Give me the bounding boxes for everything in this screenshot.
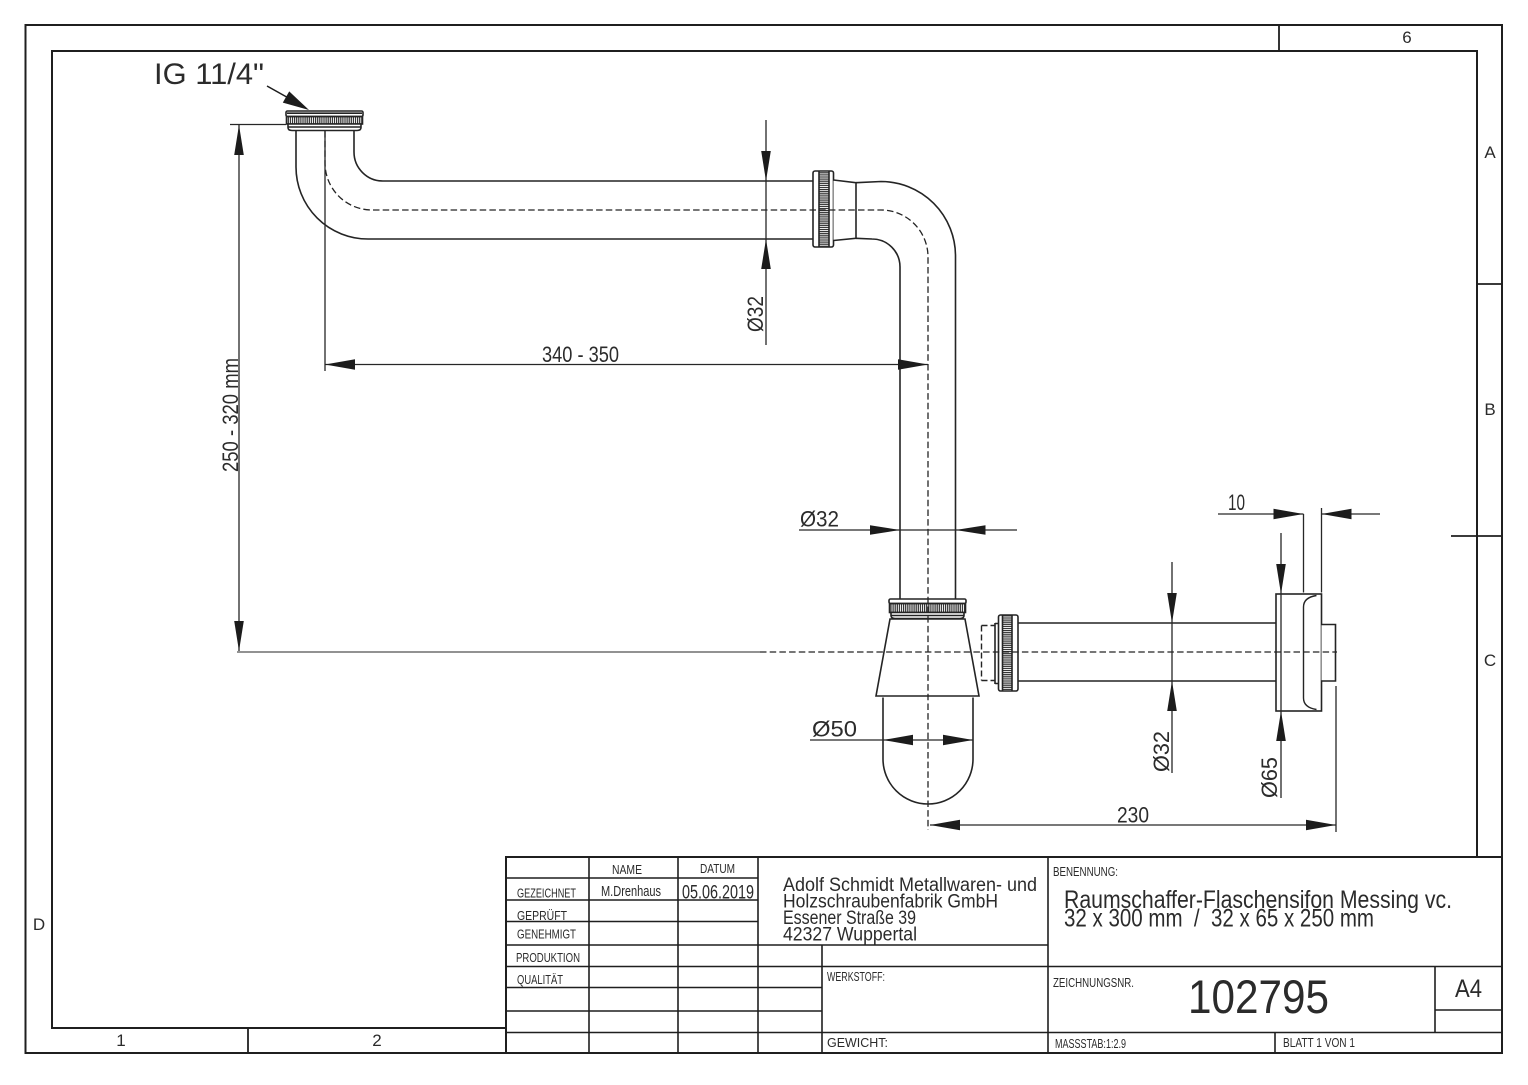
arrow 10 right [1274, 509, 1304, 519]
pipe centerline elbow1-pipe1-elbow2-vertical-trap (dashed) [325, 131, 928, 830]
svg-text:Ø32: Ø32 [743, 296, 768, 332]
leader line IG [267, 86, 292, 100]
svg-text:WERKSTOFF:: WERKSTOFF: [827, 970, 885, 984]
svg-text:42327 Wuppertal: 42327 Wuppertal [783, 925, 917, 946]
svg-text:A4: A4 [1455, 975, 1482, 1003]
arrow dia32 upper up [761, 239, 771, 269]
trap nut top cap [889, 599, 966, 604]
svg-text:QUALITÄT: QUALITÄT [517, 973, 563, 987]
svg-text:B: B [1484, 400, 1495, 419]
dimension texts [154, 58, 1282, 828]
outlet union nut [999, 615, 1019, 691]
svg-text:PRODUKTION: PRODUKTION [516, 951, 580, 965]
trap cone body [876, 619, 979, 696]
dim dia32 upper line [765, 120, 767, 345]
dim 250-320 line [238, 125, 240, 651]
centerlines [237, 131, 1337, 830]
dim 340-350 line [325, 364, 928, 366]
svg-text:DATUM: DATUM [700, 862, 735, 876]
dim dia50 line [810, 739, 973, 741]
dim 230 line [930, 824, 1336, 826]
svg-text:M.Drenhaus: M.Drenhaus [601, 884, 661, 900]
elbow 2 inner edge [856, 238, 900, 599]
title block vertical lines [589, 857, 1435, 1053]
outlet pipe top edge [1018, 622, 1276, 624]
dim 230 right extension [1335, 686, 1337, 832]
zone tick top border [1278, 26, 1280, 51]
svg-text:32 x 300 mm / 32 x 65 x 250: 32 x 300 mm / 32 x 65 x 250 mm [1064, 905, 1374, 933]
flange face profile curve [1304, 596, 1317, 710]
outlet stub edge [995, 623, 999, 684]
dim dia65 lines [1280, 533, 1282, 798]
dim 340-350 left extension [324, 131, 326, 371]
svg-text:05.06.2019: 05.06.2019 [682, 882, 754, 904]
svg-text:GEWICHT:: GEWICHT: [827, 1036, 888, 1050]
arrow 340-350 left [325, 359, 355, 369]
svg-text:GENEHMIGT: GENEHMIGT [517, 928, 576, 942]
svg-text:Ø50: Ø50 [812, 717, 857, 742]
svg-text:340 - 350: 340 - 350 [542, 342, 619, 367]
svg-text:BENENNUNG:: BENENNUNG: [1053, 865, 1118, 879]
svg-text:D: D [33, 915, 45, 934]
svg-text:MASSSTAB:1:2.9: MASSSTAB:1:2.9 [1055, 1037, 1126, 1051]
arrow dia32 vpipe left [956, 525, 986, 535]
outlet hidden lines (dashed) [982, 626, 996, 681]
arrow 250-320 down [234, 621, 244, 651]
svg-text:Ø32: Ø32 [800, 507, 839, 532]
trap nut collar [891, 613, 964, 619]
dim 10 lines [1218, 513, 1380, 515]
wall flange (rosette) [1276, 594, 1322, 711]
dim 10 extensions [1304, 508, 1322, 593]
arrowheads [234, 91, 1351, 830]
svg-text:ZEICHNUNGSNR.: ZEICHNUNGSNR. [1053, 976, 1134, 990]
arrow dia50 left [883, 735, 913, 745]
svg-text:6: 6 [1402, 28, 1411, 47]
arrow dia32 outlet down [1167, 593, 1177, 623]
arrow dia50 right [943, 735, 973, 745]
outlet pipe bottom edge [1018, 680, 1276, 682]
arrow 10 left [1322, 509, 1352, 519]
inlet nut collar [288, 124, 361, 131]
svg-text:A: A [1484, 143, 1496, 162]
svg-text:230: 230 [1117, 803, 1149, 828]
union nut on horizontal pipe [813, 171, 834, 247]
zone tick bottom border 1/2 [247, 1028, 249, 1053]
arrow dia65 down [1276, 564, 1286, 594]
pipe end stub after flange [1322, 625, 1336, 682]
elbow 2 outer edge [856, 182, 956, 600]
trap cup with round bottom [883, 698, 973, 805]
elbow 1 inner edge [354, 131, 383, 182]
horizontal pipe top edge [383, 180, 813, 182]
inlet nut collar inner line [288, 126, 361, 128]
arrow dia32 upper down [761, 151, 771, 181]
svg-text:GEPRÜFT: GEPRÜFT [517, 909, 567, 923]
svg-text:Ø65: Ø65 [1257, 757, 1282, 798]
dim dia32 vertical-pipe lines [799, 529, 1017, 531]
title block texts [516, 862, 1482, 1051]
horizontal pipe bottom edge [368, 238, 813, 240]
fold mark right border B/C [1451, 535, 1502, 537]
svg-text:GEZEICHNET: GEZEICHNET [517, 887, 576, 901]
arrow dia65 up [1276, 711, 1286, 741]
dim 250-320 top extension [230, 124, 286, 126]
arrow dia32 vpipe right [870, 525, 900, 535]
title block horizontal lines left table [506, 878, 1502, 1033]
trap nut knurl band [890, 604, 966, 613]
svg-text:250 - 320 mm: 250 - 320 mm [218, 358, 243, 472]
divider under A4 cell [1435, 1009, 1502, 1011]
svg-text:IG 11/4": IG 11/4" [154, 58, 264, 91]
svg-text:10: 10 [1228, 490, 1245, 515]
elbow 1 outer edge [296, 131, 368, 240]
svg-text:1: 1 [116, 1031, 125, 1050]
outlet centerline solid extension [237, 651, 760, 653]
svg-text:Ø32: Ø32 [1149, 731, 1174, 772]
leader arrow head IG [283, 91, 309, 110]
outlet centerline dashed [760, 651, 1337, 653]
arrow dia32 outlet up [1167, 681, 1177, 711]
svg-text:102795: 102795 [1188, 970, 1329, 1023]
arrow 250-320 up [234, 125, 244, 155]
arrow 340-350 right [898, 359, 928, 369]
svg-text:BLATT 1 VON 1: BLATT 1 VON 1 [1283, 1036, 1355, 1050]
inlet nut knurl band [287, 117, 363, 125]
dim dia32 outlet lines [1171, 562, 1173, 773]
arrow 230 left [930, 820, 960, 830]
sleeve after union nut [834, 180, 857, 241]
arrow 230 right [1306, 820, 1336, 830]
svg-text:NAME: NAME [612, 863, 642, 877]
svg-text:2: 2 [372, 1031, 381, 1050]
svg-text:C: C [1484, 651, 1496, 670]
inlet nut top cap [286, 111, 363, 117]
zone tick right border A/B [1477, 283, 1502, 285]
title block outline [506, 857, 1502, 1053]
